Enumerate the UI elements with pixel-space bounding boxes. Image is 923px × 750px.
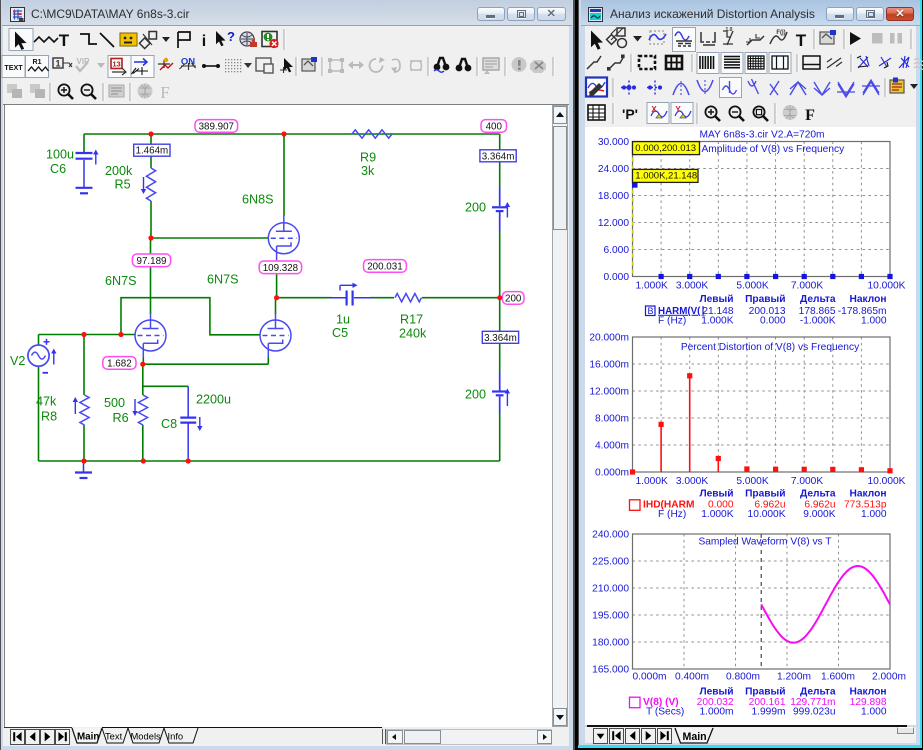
svg-text:195.000: 195.000 [592, 610, 629, 621]
svg-text:200k: 200k [105, 164, 133, 178]
svg-text:18.000: 18.000 [598, 191, 629, 202]
svg-text:Правый: Правый [745, 686, 785, 697]
svg-text:100u: 100u [46, 148, 74, 162]
svg-text:0.400m: 0.400m [675, 671, 709, 682]
svg-text:i: i [202, 33, 206, 50]
svg-text:1: 1 [55, 59, 60, 69]
svg-text:C5: C5 [332, 326, 348, 340]
svg-text:200: 200 [465, 201, 486, 215]
svg-text:1.200m: 1.200m [777, 671, 811, 682]
svg-text:R9: R9 [360, 151, 376, 165]
svg-text:Левый: Левый [699, 488, 733, 499]
svg-text:0.000,200.013: 0.000,200.013 [635, 143, 696, 154]
svg-text:C6: C6 [50, 162, 66, 176]
svg-text:'P': 'P' [622, 106, 638, 122]
svg-text:1.000K: 1.000K [701, 509, 733, 520]
svg-text:109.328: 109.328 [263, 263, 299, 274]
svg-text:1.000K: 1.000K [636, 476, 668, 487]
svg-text:1.000: 1.000 [861, 316, 887, 327]
svg-text:Левый: Левый [699, 294, 733, 305]
svg-text:240.000: 240.000 [592, 529, 629, 540]
svg-text:Правый: Правый [745, 488, 785, 499]
svg-text:F (Hz): F (Hz) [658, 509, 686, 520]
svg-text:2200u: 2200u [196, 393, 231, 407]
svg-text:180.000: 180.000 [592, 637, 629, 648]
svg-text:165.000: 165.000 [592, 664, 629, 675]
svg-text:R17: R17 [400, 313, 423, 327]
svg-text:VIP: VIP [77, 57, 91, 66]
svg-text:F (Hz): F (Hz) [658, 316, 686, 327]
svg-text:F: F [805, 107, 815, 124]
svg-text:0.000m: 0.000m [595, 467, 629, 478]
svg-text:1.000K,21.148: 1.000K,21.148 [635, 171, 697, 182]
svg-text:F(|): F(|) [776, 30, 785, 36]
svg-text:5.000K: 5.000K [736, 476, 768, 487]
svg-text:10.000K: 10.000K [868, 476, 906, 487]
svg-text:1.000K: 1.000K [636, 280, 668, 291]
svg-text:1.999m: 1.999m [752, 707, 786, 718]
svg-text:1.600m: 1.600m [821, 671, 855, 682]
svg-text:9.000K: 9.000K [803, 509, 835, 520]
svg-text:TEXT: TEXT [4, 63, 23, 72]
svg-text:-1.000K: -1.000K [800, 316, 836, 327]
svg-text:3.364m: 3.364m [484, 333, 517, 344]
svg-text:240k: 240k [399, 327, 427, 341]
svg-text:210.000: 210.000 [592, 583, 629, 594]
svg-text:1.000: 1.000 [861, 707, 887, 718]
svg-text:Sampled Waveform V(8) vs T: Sampled Waveform V(8) vs T [698, 536, 831, 547]
svg-text:5.000K: 5.000K [736, 280, 768, 291]
svg-text:3.364m: 3.364m [482, 151, 515, 162]
svg-text:7.000K: 7.000K [791, 476, 823, 487]
svg-text:97.189: 97.189 [137, 256, 167, 267]
svg-text:0.000: 0.000 [604, 272, 630, 283]
svg-text:Наклон: Наклон [850, 488, 887, 499]
svg-text:200: 200 [465, 388, 486, 402]
svg-text:10.000K: 10.000K [748, 509, 786, 520]
svg-text:C8: C8 [161, 417, 177, 431]
svg-text:200: 200 [505, 293, 522, 304]
svg-text:3k: 3k [361, 164, 375, 178]
svg-text:T: T [796, 31, 807, 50]
svg-text:R6: R6 [113, 411, 129, 425]
svg-text:T: T [59, 31, 70, 50]
svg-text:0.000: 0.000 [760, 316, 786, 327]
svg-text:500: 500 [104, 396, 125, 410]
svg-text:7.000K: 7.000K [791, 280, 823, 291]
svg-text:R8: R8 [41, 410, 57, 424]
svg-text:8.000m: 8.000m [595, 413, 629, 424]
svg-text:0.000m: 0.000m [633, 671, 667, 682]
svg-text:Наклон: Наклон [850, 686, 887, 697]
svg-text:999.023u: 999.023u [793, 707, 836, 718]
svg-text:389.907: 389.907 [199, 121, 234, 132]
svg-text:MAY 6n8s-3.cir V2.A=720m: MAY 6n8s-3.cir V2.A=720m [699, 129, 824, 140]
svg-text:13: 13 [112, 60, 120, 69]
svg-text:6.000: 6.000 [604, 245, 630, 256]
svg-text:X: X [651, 105, 657, 114]
svg-text:3.000K: 3.000K [676, 280, 708, 291]
svg-text:F: F [160, 83, 169, 102]
svg-text:Amplitude of V(8) vs Frequency: Amplitude of V(8) vs Frequency [702, 144, 846, 155]
svg-text:6N7S: 6N7S [207, 273, 239, 287]
svg-text:T (Secs): T (Secs) [646, 707, 684, 718]
svg-text:1.000K: 1.000K [701, 316, 733, 327]
svg-text:24.000: 24.000 [598, 164, 629, 175]
svg-text:V2: V2 [10, 354, 25, 368]
svg-text:3.000K: 3.000K [676, 476, 708, 487]
svg-text:R1: R1 [33, 59, 42, 66]
svg-text:R5: R5 [115, 178, 131, 192]
svg-text:Дельта: Дельта [800, 488, 836, 499]
svg-text:1.000m: 1.000m [700, 707, 734, 718]
svg-text:Дельта: Дельта [800, 294, 836, 305]
svg-text:12.000: 12.000 [598, 218, 629, 229]
svg-text:16.000m: 16.000m [589, 359, 629, 370]
svg-text:225.000: 225.000 [592, 556, 629, 567]
svg-text:10.000K: 10.000K [868, 280, 906, 291]
svg-text:Дельта: Дельта [800, 686, 836, 697]
svg-text:Percent Distortion of V(8) vs: Percent Distortion of V(8) vs Frequency [681, 342, 860, 353]
svg-text:?: ? [227, 29, 235, 44]
svg-text:1.000: 1.000 [861, 509, 887, 520]
svg-text:30.000: 30.000 [598, 137, 629, 148]
svg-text:Правый: Правый [745, 294, 785, 305]
svg-text:1u: 1u [336, 313, 350, 327]
svg-text:12.000m: 12.000m [589, 386, 629, 397]
svg-text:400: 400 [486, 121, 503, 132]
svg-text:20.000m: 20.000m [589, 332, 629, 343]
svg-text:1.0: 1.0 [726, 27, 733, 33]
svg-text:B: B [648, 306, 654, 316]
svg-text:6N7S: 6N7S [105, 274, 137, 288]
svg-text:1.464m: 1.464m [136, 146, 169, 157]
svg-text:2.000m: 2.000m [872, 671, 906, 682]
svg-text:6N8S: 6N8S [242, 193, 274, 207]
svg-text:1.682: 1.682 [107, 358, 132, 369]
svg-text:Наклон: Наклон [850, 294, 887, 305]
svg-text:4.000m: 4.000m [595, 440, 629, 451]
svg-text:Y: Y [675, 105, 681, 114]
svg-text:200.031: 200.031 [367, 261, 402, 272]
svg-text:0.800m: 0.800m [726, 671, 760, 682]
svg-text:Левый: Левый [699, 686, 733, 697]
svg-text:47k: 47k [36, 395, 57, 409]
